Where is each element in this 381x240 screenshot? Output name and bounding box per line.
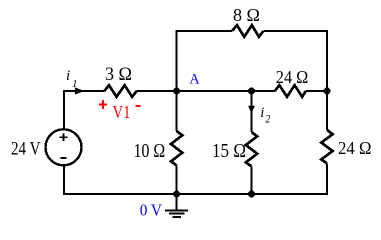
svg-text:15 Ω: 15 Ω bbox=[212, 140, 246, 162]
wire: vertical, node A down to 10-ohm bbox=[176, 91, 178, 131]
current arrow i1 head bbox=[75, 87, 84, 94]
wire: vertical from node A up to top wire bbox=[176, 31, 178, 91]
resistor R5 15-ohm vertical zigzag bbox=[246, 132, 257, 166]
svg-text:10 Ω: 10 Ω bbox=[134, 140, 166, 162]
wire: 10-ohm down to bottom wire bbox=[176, 165, 178, 194]
wire: bottom horizontal bbox=[63, 193, 328, 195]
resistor R1 3-ohm zigzag bbox=[104, 85, 136, 97]
svg-text:i: i bbox=[66, 68, 70, 84]
voltage source VS 24V circle bbox=[46, 129, 82, 165]
svg-text:A: A bbox=[190, 72, 200, 88]
voltage source minus sign bbox=[61, 157, 67, 159]
resistor R2 8-ohm zigzag bbox=[232, 25, 263, 37]
wire: vertical, node B down to 15-ohm bbox=[250, 91, 252, 132]
wire: main horizontal, node A to node B bbox=[177, 90, 252, 92]
svg-text:8 Ω: 8 Ω bbox=[233, 5, 260, 25]
node E dot (ground node) bbox=[173, 191, 180, 198]
resistor R4 10-ohm vertical zigzag bbox=[171, 131, 182, 165]
node A dot bbox=[173, 88, 180, 95]
label + of V1 (red) bbox=[99, 100, 107, 109]
wire: left vertical, top-left corner down to source top bbox=[63, 90, 65, 129]
node B dot bbox=[248, 88, 255, 95]
svg-text:24 V: 24 V bbox=[11, 140, 41, 160]
svg-text:0 V: 0 V bbox=[140, 201, 163, 220]
node C dot bbox=[324, 88, 331, 95]
resistor R3 24-ohm horizontal zigzag bbox=[275, 85, 306, 97]
svg-text:24 Ω: 24 Ω bbox=[276, 67, 309, 87]
current arrow i2 head bbox=[248, 106, 255, 113]
svg-text:3 Ω: 3 Ω bbox=[105, 65, 132, 85]
svg-text:V1: V1 bbox=[113, 102, 131, 122]
wire: main horizontal, node B to 24-ohm bbox=[252, 90, 275, 92]
wire: main horizontal, 3-ohm to node A bbox=[137, 90, 177, 92]
voltage source plus sign bbox=[60, 133, 68, 141]
label - of V1 (red) bbox=[136, 105, 141, 107]
svg-text:i: i bbox=[260, 105, 264, 121]
node D dot bbox=[248, 191, 255, 198]
wire: 24-ohm to right node bbox=[306, 90, 327, 92]
wire: left vertical, source bottom to bottom-left corner bbox=[63, 166, 65, 195]
wire: right vertical, 24-ohm down to bottom corner bbox=[326, 164, 328, 195]
wire: 15-ohm down to bottom wire bbox=[250, 166, 252, 194]
wire: right vertical, top corner down to 24-ohm bbox=[326, 30, 328, 130]
svg-text:24 Ω: 24 Ω bbox=[338, 138, 372, 158]
svg-text:1: 1 bbox=[72, 78, 78, 90]
svg-text:2: 2 bbox=[265, 112, 270, 126]
resistor R6 24-ohm right vertical zigzag bbox=[321, 130, 332, 164]
wire: top horizontal to 8-ohm bbox=[176, 30, 233, 32]
wire: top horizontal, 8-ohm to right corner bbox=[263, 30, 327, 32]
wire: main horizontal, corner to 3-ohm bbox=[63, 90, 104, 92]
ground symbol bbox=[165, 194, 188, 217]
